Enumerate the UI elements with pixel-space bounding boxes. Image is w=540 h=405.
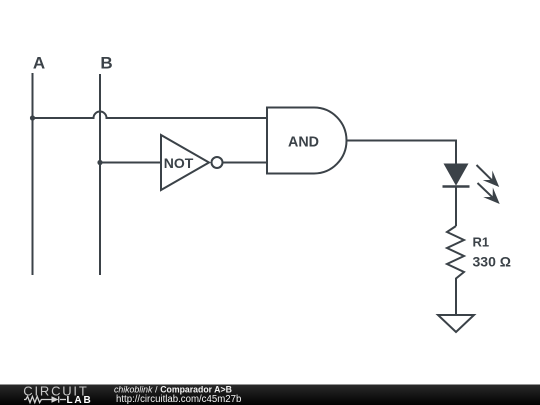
svg-text:NOT: NOT <box>164 155 194 171</box>
svg-text:330 Ω: 330 Ω <box>473 253 511 269</box>
svg-text:R1: R1 <box>473 235 490 250</box>
svg-text:AND: AND <box>288 134 319 150</box>
svg-text:http://circuitlab.com/c45m27b: http://circuitlab.com/c45m27b <box>116 394 242 405</box>
svg-text:A: A <box>33 53 45 72</box>
svg-text:LAB: LAB <box>67 395 91 405</box>
svg-text:B: B <box>100 53 112 72</box>
